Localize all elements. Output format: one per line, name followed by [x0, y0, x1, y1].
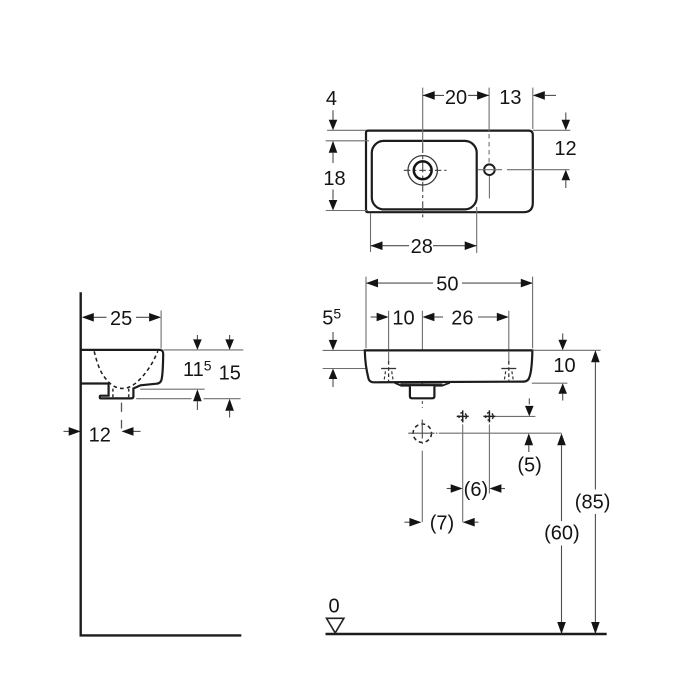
trap lip extension line (side): [140, 388, 204, 390]
tap hole hidden centerline: [488, 134, 490, 163]
svg-text:15: 15: [219, 363, 241, 385]
dimension 12 (side): [64, 430, 70, 432]
washbasin inner bowl rim (plan): [372, 141, 477, 210]
extension line outer top edge (plan, left): [327, 129, 366, 131]
tap hole horizontal centerline: [478, 169, 570, 171]
tap hole extension line: [488, 88, 490, 131]
wall line: [79, 292, 81, 635]
svg-text:(7): (7): [430, 513, 454, 535]
tap hole centerline below: [488, 176, 490, 199]
front body centerline: [421, 311, 423, 351]
dimension 50: [366, 282, 533, 284]
trap outlet centerline (side, dashed): [121, 403, 123, 429]
dimension (7): [404, 521, 409, 523]
floor line right: [326, 633, 607, 635]
dimension 20: [423, 94, 489, 96]
drain centerline vertical: [422, 88, 424, 143]
svg-text:10: 10: [553, 355, 575, 377]
dimension 25: [84, 316, 149, 318]
svg-text:26: 26: [451, 308, 473, 330]
washbasin outer body (plan): [366, 131, 533, 213]
extension line bowl bottom edge (plan, left): [326, 210, 368, 212]
dimension 11^5 arrows: [196, 335, 198, 339]
extension line right edge plan: [532, 88, 534, 129]
extension line bowl top edge (plan, left): [326, 140, 369, 142]
svg-text:(85): (85): [575, 492, 611, 514]
right fixing hole (front, hidden): [508, 351, 510, 361]
svg-text:(6): (6): [464, 479, 488, 501]
dimension 10 (front right): [532, 349, 600, 351]
drain cup (front): [410, 386, 435, 398]
dimension 13: [533, 91, 545, 100]
svg-text:0: 0: [328, 595, 339, 617]
right wall-fixing cross (front): [483, 410, 495, 422]
floor line left: [80, 634, 242, 636]
tap hole circle: [484, 164, 495, 175]
svg-text:115: 115: [183, 357, 212, 381]
rim top extension line (side): [164, 349, 244, 351]
dimension (6): [447, 488, 452, 490]
dimension 28: [370, 214, 372, 253]
drain funnel (front): [395, 383, 450, 386]
svg-text:28: 28: [411, 236, 433, 258]
washbasin body (front): [365, 350, 533, 382]
hidden bowl contour (side, dashed): [94, 351, 158, 388]
svg-text:4: 4: [326, 88, 337, 110]
dimension (60): [557, 433, 566, 445]
fixing hole extension lines down: [462, 424, 464, 522]
dimension (5): [525, 433, 534, 445]
basin profile with trap (side): [81, 350, 164, 399]
drain inner circle: [414, 161, 432, 179]
svg-text:55: 55: [322, 306, 341, 330]
left wall-fixing cross (front): [457, 410, 469, 422]
dimension (85): [591, 350, 600, 362]
dimension 12 (plan right): [533, 129, 571, 131]
drain centerline horizontal: [404, 169, 447, 171]
svg-text:13: 13: [499, 87, 521, 109]
svg-text:(5): (5): [517, 455, 541, 477]
svg-text:18: 18: [323, 168, 345, 190]
svg-text:20: 20: [445, 87, 467, 109]
outlet row reference line: [439, 432, 562, 434]
dimension 18: [329, 141, 338, 153]
svg-text:50: 50: [436, 274, 458, 296]
svg-text:(60): (60): [544, 523, 580, 545]
svg-text:12: 12: [554, 138, 576, 160]
svg-text:12: 12: [89, 424, 111, 446]
dimension 10 / 26: [371, 316, 377, 318]
svg-text:10: 10: [392, 308, 414, 330]
fixing row reference line: [495, 415, 535, 417]
left fixing hole (front, hidden): [388, 351, 390, 361]
hidden trap walls (side, dashed): [113, 389, 129, 398]
drain outer circle: [408, 156, 437, 185]
trap bottom extension line (side): [136, 398, 240, 400]
svg-text:25: 25: [110, 308, 132, 330]
waste outlet circle (front, dashed): [413, 424, 431, 442]
